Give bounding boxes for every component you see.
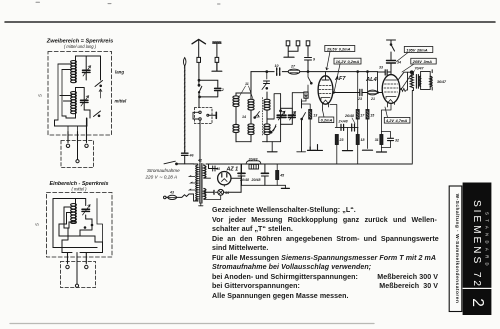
svg-text:2: 2 <box>469 298 486 307</box>
svg-text:29,5V 0,2mA: 29,5V 0,2mA <box>326 46 351 51</box>
svg-text:15: 15 <box>370 114 375 118</box>
svg-text:36/47: 36/47 <box>437 80 447 84</box>
capacitor 9 <box>305 46 312 72</box>
capacitor 10 <box>277 68 280 75</box>
varcap mittel <box>81 100 89 102</box>
top specks <box>36 2 220 4</box>
sidebar black box 2 <box>463 289 492 315</box>
svg-text:S: S <box>38 94 43 97</box>
coil L-lang <box>71 61 77 64</box>
svg-text:41: 41 <box>215 167 220 171</box>
pilot lamp 44 <box>218 189 224 195</box>
anode wire to transformer <box>398 72 413 80</box>
svg-text:0,2mA: 0,2mA <box>321 118 333 123</box>
svg-text:( mittel ): ( mittel ) <box>71 187 87 192</box>
svg-text:23: 23 <box>339 138 344 142</box>
dashed enclosure <box>47 193 113 258</box>
resistor 31 <box>380 135 383 145</box>
bottom wire + ground <box>241 184 285 186</box>
wires mittel <box>76 88 85 111</box>
varcap lang <box>83 70 91 72</box>
grounds <box>347 127 349 150</box>
svg-text:70/47: 70/47 <box>415 67 425 71</box>
antenna terminal square <box>197 57 201 62</box>
coil <box>71 204 77 207</box>
wire down to coils <box>250 72 252 83</box>
svg-text:10: 10 <box>275 64 279 68</box>
secondary <box>419 76 421 86</box>
callout 16,2V 0,2mA <box>334 58 361 64</box>
tube AF7 <box>318 76 333 104</box>
coil lang taps <box>58 64 72 70</box>
svg-text:S: S <box>35 223 40 226</box>
svg-text:17: 17 <box>360 114 365 118</box>
cathode RC <box>381 103 391 134</box>
tube AL4 <box>382 75 400 104</box>
svg-text:Stromaufnahme: Stromaufnahme <box>147 168 180 173</box>
AZ1 to bus <box>231 164 241 192</box>
HT secondary <box>204 166 206 179</box>
svg-text:20/48: 20/48 <box>251 178 261 182</box>
resistor 17 <box>356 110 359 120</box>
svg-text:STANDARD: STANDARD <box>485 212 490 270</box>
bottom rule <box>10 323 374 325</box>
tuning gang cap A <box>277 115 286 117</box>
svg-text:lang: lang <box>115 70 124 75</box>
svg-text:34: 34 <box>397 61 401 65</box>
svg-text:43: 43 <box>169 191 174 195</box>
gang switch <box>274 125 277 131</box>
earth terminal square <box>215 57 219 62</box>
svg-text:195V 28mA: 195V 28mA <box>406 47 427 52</box>
resistor 45 <box>276 164 278 185</box>
terminal box dashed <box>61 262 96 288</box>
screen feeds <box>358 72 368 110</box>
heater <box>323 100 328 103</box>
resistor 15 <box>366 110 369 120</box>
resistor 23 <box>335 135 338 145</box>
coil column 2 x267 <box>264 99 270 102</box>
svg-text:AF7: AF7 <box>334 76 346 82</box>
svg-text:18: 18 <box>361 138 365 142</box>
svg-text:44: 44 <box>224 191 229 195</box>
V box (AGC pot) <box>304 92 308 98</box>
resistor 18 <box>356 135 359 145</box>
electrolytic 20/48 (left) <box>241 164 243 172</box>
svg-text:21: 21 <box>370 97 375 101</box>
svg-text:20/48: 20/48 <box>239 178 249 182</box>
svg-text:45: 45 <box>279 174 285 178</box>
sidebar white label box <box>449 186 462 312</box>
ground under 13 <box>308 147 317 150</box>
top T + switch + cap 34 <box>387 40 396 45</box>
internals <box>385 83 398 85</box>
earth terminal squares <box>286 41 290 46</box>
wires <box>76 199 86 220</box>
mains switch <box>164 161 175 164</box>
svg-text:23: 23 <box>357 97 362 101</box>
lead-in tip <box>183 58 186 67</box>
svg-text:4,2V 4,7mA: 4,2V 4,7mA <box>385 118 407 123</box>
top link / switch over column2 <box>264 81 270 84</box>
ground <box>377 151 387 153</box>
mains plug + fuse 43 <box>164 196 167 199</box>
primary taps <box>189 176 195 191</box>
mains lead-in (dial cord) <box>184 66 186 152</box>
coil L-mittel <box>71 92 77 95</box>
callout 29,5V 0,2mA <box>325 46 355 52</box>
callout 195V 28mA <box>404 47 433 53</box>
band switches between coils <box>255 112 260 119</box>
jack plug <box>207 114 209 116</box>
resistor 27 <box>288 69 300 74</box>
svg-text:11: 11 <box>245 82 249 86</box>
switch 1 <box>198 84 200 86</box>
interior routing wires <box>58 64 64 120</box>
cathode <box>321 98 330 100</box>
svg-text:16,2V 0,2mA: 16,2V 0,2mA <box>336 59 360 64</box>
terminals <box>66 265 69 268</box>
svg-text:220 V ∼ 0,28 A: 220 V ∼ 0,28 A <box>145 175 178 180</box>
svg-text:46: 46 <box>189 154 195 158</box>
earth symbol top <box>212 41 221 44</box>
svg-text:( mittel und lang ): ( mittel und lang ) <box>64 44 97 49</box>
output transformer primary <box>410 75 413 88</box>
HT wire to AZ1 <box>204 164 218 169</box>
electrolytic 20/48 (right) <box>264 164 266 172</box>
bottom joining wires <box>236 124 281 141</box>
capacitor 46 <box>182 153 189 155</box>
heater secondary <box>204 189 206 199</box>
dashed enclosure <box>48 52 112 136</box>
svg-text:2×/48: 2×/48 <box>338 120 348 124</box>
switch right of gang <box>302 113 306 120</box>
svg-text:AL4: AL4 <box>365 77 378 83</box>
core <box>416 75 418 89</box>
svg-text:31: 31 <box>375 138 379 142</box>
svg-text:26/48: 26/48 <box>344 114 354 118</box>
capacitor 41 <box>213 166 215 171</box>
callout 0,2mA <box>319 117 334 123</box>
cathode wire + caps 26/48 2x/48 <box>330 105 337 128</box>
B+ bus <box>206 163 412 165</box>
speaker frame <box>421 72 431 90</box>
callout 4,2V 4,7mA <box>384 117 410 123</box>
callout 205V 3mA <box>411 58 436 64</box>
sidebar black box SIEMENS 72 <box>463 183 492 288</box>
svg-text:SIEMENS 72: SIEMENS 72 <box>471 200 482 289</box>
grids (dashed) <box>320 85 332 87</box>
switch mittel <box>94 111 101 117</box>
svg-text:13: 13 <box>313 114 317 118</box>
switch lang <box>95 81 103 87</box>
grid entry <box>377 72 379 93</box>
wire top lang <box>76 56 101 80</box>
legs <box>323 103 329 111</box>
svg-text:33: 33 <box>379 66 383 70</box>
tap arrow across primary <box>401 72 413 90</box>
coupling cap 23 + resistor 21 <box>333 92 382 94</box>
phono jack dashed box <box>195 108 213 124</box>
B+ down wire <box>412 91 413 164</box>
main grid wire <box>251 71 378 73</box>
earth T <box>212 62 222 71</box>
leads to terminals <box>68 253 87 264</box>
svg-text:14: 14 <box>242 115 246 119</box>
terminal box (dashed) <box>61 141 94 168</box>
svg-text:205V 3mA: 205V 3mA <box>412 59 432 64</box>
resistor 13 <box>309 110 312 120</box>
tuning gang frame <box>281 108 293 124</box>
svg-text:mittel: mittel <box>115 99 127 104</box>
capacitor 2 <box>215 88 221 90</box>
tuning gang cap B <box>288 115 295 117</box>
svg-text:32: 32 <box>395 139 399 143</box>
earth bracket + T <box>288 46 298 57</box>
left drop + bottom wire <box>407 72 409 90</box>
varcap <box>82 209 90 211</box>
cap 32 parallel <box>381 132 390 148</box>
ground below gang <box>268 151 278 153</box>
antenna A <box>192 39 206 43</box>
wire to cap 2 <box>199 80 218 87</box>
svg-text:9: 9 <box>313 58 315 62</box>
wire from cap9 down to switch blade <box>308 72 312 93</box>
top rule <box>5 21 495 23</box>
antenna coil column x236 <box>233 96 239 99</box>
svg-text:27: 27 <box>290 65 296 69</box>
ground stubs above bus <box>313 145 323 151</box>
svg-text:2: 2 <box>221 88 224 92</box>
svg-text:42: 42 <box>197 159 202 163</box>
cap 33 <box>385 70 387 75</box>
core ground stub <box>199 203 203 206</box>
primary winding <box>196 165 198 201</box>
wire antenna down <box>198 62 200 85</box>
terminals <box>66 144 69 147</box>
speaker coil <box>430 76 432 86</box>
svg-text:W-Schaltung · W-Sammelkondensa: W-Schaltung · W-Sammelkondensatoren <box>454 194 460 304</box>
top cap <box>322 72 329 80</box>
